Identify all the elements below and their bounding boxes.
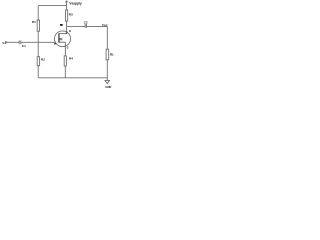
svg-text:Vsupply: Vsupply [69, 2, 82, 6]
svg-text:D: D [69, 29, 71, 33]
svg-text:R4: R4 [69, 57, 73, 61]
svg-text:R3: R3 [69, 12, 73, 16]
svg-text:S: S [67, 45, 69, 49]
svg-text:C2: C2 [84, 20, 88, 24]
svg-text:C1: C1 [22, 44, 26, 48]
svg-text:R2: R2 [41, 58, 45, 62]
svg-text:GND: GND [105, 85, 111, 89]
svg-text:RL: RL [110, 53, 114, 57]
svg-text:R1: R1 [32, 20, 36, 24]
